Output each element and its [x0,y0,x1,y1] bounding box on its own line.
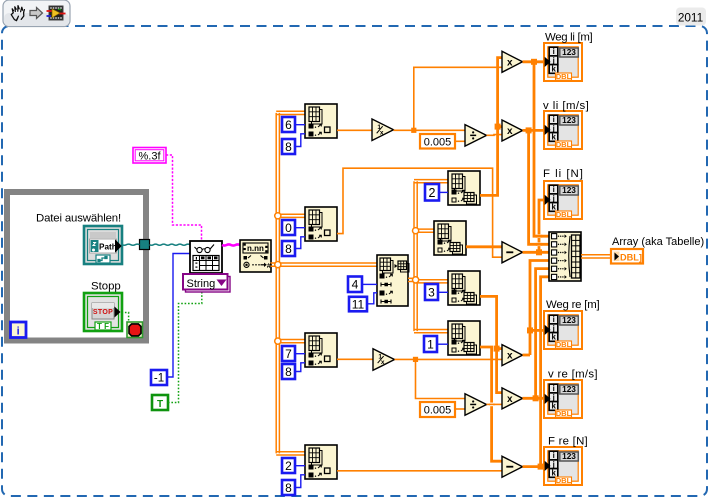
wire v re out [523,397,545,400]
svg-text:11: 11 [352,297,365,311]
wire B4 to subtract F re [480,347,502,461]
wire 0.005 to divide (re) [455,408,465,410]
wire B2 to subtract F li [466,245,502,248]
svg-text:123: 123 [562,47,576,57]
wire v li to build array row2 [529,130,549,244]
svg-text:123: 123 [562,185,576,195]
index array A4 [305,445,337,479]
constant 11 [349,297,367,312]
junction F re out [538,464,544,470]
wire A4 to subtract F re [337,470,502,472]
label Weg re [m] [546,299,600,311]
loop condition terminal [127,322,143,338]
constant 2 (B1) [425,184,439,201]
wire 2D subset vertical [414,181,417,331]
multiply v li [502,120,523,141]
divide (re) [465,394,487,416]
junction 1/x out (li) [411,128,416,133]
subtract F re [502,456,523,477]
svg-text:Array (aka Tabelle): Array (aka Tabelle) [612,236,704,248]
wire v re to build array row5 [536,269,549,399]
numeric constant 0.005 (re) [420,402,455,417]
divide (li) [465,125,487,147]
wire divide to multiply v re [487,403,502,405]
constant 0 (A2) [282,220,295,235]
svg-text:String: String [187,278,216,290]
loop iteration terminal i [11,322,27,338]
svg-text:0.005: 0.005 [424,136,452,148]
svg-text:8: 8 [285,242,292,256]
wire crossing gap (F li riser over row1) [537,234,540,238]
index array B4 [448,321,480,355]
svg-text:i: i [553,115,555,124]
svg-text:8: 8 [285,481,292,495]
svg-text:123: 123 [562,451,576,461]
junction V1 at multiply v li [495,124,501,130]
wire 8 to A4 [295,475,305,488]
index array B3 [448,271,480,305]
wire branch to index array B4 [414,330,448,333]
wire F li out [523,251,550,254]
wire -1 to Read VI [167,254,190,378]
wire branch to index array A4 [276,452,305,455]
wire Weg li to build array row1 [534,62,549,236]
svg-text:j: j [552,124,555,133]
svg-text:i: i [553,185,555,194]
wire Weg re to indicator [530,329,544,332]
Build Array [549,232,581,281]
label v re [m/s] [548,369,598,381]
index array A2 [305,207,337,241]
wire 1/x to multiply Weg re [395,358,503,360]
constant 8 (A2) [282,241,295,256]
svg-text:DBL: DBL [556,72,572,81]
numeric constant -1 [151,370,167,385]
wire 8 to A2 [295,237,305,249]
svg-text:123: 123 [562,115,576,125]
constant 8 (A1) [282,139,295,154]
index array B2 [434,221,466,255]
wire branch to index array A2 [278,214,305,217]
wire F re to build array row6 [541,277,549,467]
svg-text:Path: Path [99,243,117,252]
svg-text:T F: T F [97,322,109,331]
wire 3 to B3 [438,291,448,293]
wire 1/x to divide (li) [394,129,466,131]
path control Datei auswählen [84,226,122,264]
svg-text:x: x [507,57,513,68]
wire tunnel to Read VI [150,244,191,245]
wire B3 to multiply tops (V2) [480,296,502,392]
snippet toolbar [3,0,70,27]
label Datei auswählen! [36,213,121,225]
wire divide to multiply v li [487,134,502,137]
svg-text:j: j [552,56,555,65]
junction on 2D wire (A3) [275,338,281,344]
svg-text:7: 7 [285,347,292,361]
wire 1/x branch to multiply Weg li [414,67,502,130]
svg-text:j: j [552,460,555,469]
svg-text:3: 3 [428,285,435,299]
wire branch to index array B1 [414,180,448,183]
svg-text:x: x [507,394,513,405]
constant 4 [348,277,362,293]
wire 8 to A1 [295,134,305,147]
svg-text:F li [N]: F li [N] [543,168,584,180]
svg-text:8: 8 [285,140,292,154]
wire 4 to Array Subset [362,283,377,285]
wire A1 to 1/x [337,129,372,131]
svg-text:DBL: DBL [556,140,572,149]
svg-text:x: x [507,126,513,137]
index array A1 [305,104,337,138]
svg-text:T: T [157,399,163,410]
subtract F li [502,242,523,263]
wire Weg re to build array row4 [530,261,549,356]
wire n.nn out / branch to Array Subset [271,263,378,266]
toolbar hand tool icon [11,6,24,21]
wire A2 to subtract F li [337,168,502,257]
wire branch to index array B3 [416,280,448,283]
svg-text:0: 0 [285,221,292,235]
svg-text:x: x [380,129,384,136]
wire build array row2 segment [536,243,542,246]
svg-text:i: i [553,315,555,324]
boolean constant T [152,395,168,410]
wire 2D array main vertical [276,113,279,454]
indicator F re [N] [544,447,582,485]
svg-text:DBL]: DBL] [620,252,642,262]
svg-text:j: j [552,194,555,203]
constant 3 (B3) [425,284,438,300]
wire 8 to A3 [295,363,305,372]
constant 8 (A4) [282,480,295,495]
wire 7 to A3 [295,353,305,355]
string constant %.3f [133,148,166,164]
svg-text:%.3f: %.3f [138,151,161,163]
wire crossing gap (F li riser over row2) [537,243,540,247]
wire Weg re out [523,354,531,357]
constant 8 (A3) [282,364,295,379]
toolbar run arrow icon [30,8,43,19]
junction on 2D wire (A2) [275,213,281,219]
numeric constant 0.005 (li) [420,134,455,149]
wire Array Subset output [408,278,416,281]
wire build array to Array indicator [581,255,611,258]
loop tunnel (path) [140,240,150,250]
Array (aka Tabelle) indicator [611,249,643,264]
wire A3 to 1/x (re) [337,358,373,360]
svg-text:Weg re [m]: Weg re [m] [546,299,600,311]
Fract/Exp String To Number [240,240,272,272]
wire 1/x branch to divide (re) [416,359,466,398]
reciprocal 1/x (li) [372,119,394,141]
label F li [N] [543,168,584,180]
index array B1 [448,171,480,205]
constant 7 (A3) [282,346,295,361]
svg-text:n.nn: n.nn [247,244,264,253]
constant 1 (B4) [424,336,437,352]
svg-text:j: j [552,393,555,402]
2011 version text [678,11,703,25]
svg-text:4: 4 [352,278,359,292]
wire Read VI to n.nn (2D string) [222,244,240,245]
wire V2 to multiply Weg re [497,347,502,350]
junction subset wire (B2) [413,228,419,234]
while loop [4,189,149,344]
svg-text:2: 2 [429,186,436,200]
svg-text:1: 1 [427,337,434,351]
wire %.3f to Read VI (format string) [166,155,202,241]
wire branch to index array A3 [278,340,305,343]
label Stopp [91,281,121,293]
svg-text:6: 6 [285,118,292,132]
svg-text:STOP: STOP [93,309,113,316]
String type dropdown [183,274,230,292]
wire V1 to multiply v li [498,125,502,128]
svg-text:v li [m/s]: v li [m/s] [543,100,589,112]
svg-text:x: x [381,359,385,366]
wire F li to indicator [539,200,544,252]
svg-text:DBL: DBL [556,409,572,418]
indicator Weg re [m] [544,311,582,349]
wire v li out [523,129,545,132]
wire 0.005 to divide (li) [455,140,465,142]
wire build array row1 segment [536,235,542,238]
constant 6 [282,117,295,132]
junction v li out [526,127,532,133]
wire path control to tunnel [122,244,140,245]
svg-text:Datei auswählen!: Datei auswählen! [36,213,121,225]
wire Weg li out [523,60,545,63]
wire 2 to B1 [439,191,448,193]
svg-text:i: i [553,384,555,393]
svg-text:DBL: DBL [556,476,572,485]
label Array (aka Tabelle) [612,236,704,248]
index array A3 [305,333,337,367]
junction v re out [533,395,539,401]
Read From Spreadsheet File VI [190,241,222,273]
svg-text:v re [m/s]: v re [m/s] [548,369,598,381]
wire branch to index array B2 [416,229,434,232]
svg-text:x: x [507,351,513,362]
wire crossing gap (B4 riser over divide out) [490,403,493,407]
svg-text:i: i [17,325,20,337]
constant 2 (A4) [282,458,295,473]
stop button Stopp [84,293,122,331]
junction V2 at multiply Weg re [494,346,500,352]
multiply v re [502,388,523,409]
indicator F li [N] [544,181,582,219]
wire B1 to multiply tops (V1) [480,58,502,196]
svg-text:i: i [553,47,555,56]
toolbar VI-snippet icon [47,6,66,20]
svg-text:-1: -1 [154,373,164,385]
indicator v li [m/s] [544,111,582,149]
wire 11 to Array Subset [367,293,377,304]
label Weg li [m] [545,32,593,44]
wire 1 to B4 [437,343,448,345]
svg-text:DBL: DBL [556,210,572,219]
svg-text:DBL: DBL [556,340,572,349]
junction on 2D wire (n.nn) [275,262,281,268]
junction Weg li out [531,59,537,65]
Array Subset [377,255,409,306]
wire stop button to condition terminal [122,313,129,321]
svg-text:F re [N]: F re [N] [548,436,588,448]
junction 1/x out (re) [413,357,418,362]
svg-text:i: i [553,451,555,460]
svg-text:Weg li [m]: Weg li [m] [545,32,593,44]
wire divide out segment (re) [489,403,495,405]
multiply Weg li [502,51,523,72]
multiply Weg re [502,345,523,366]
svg-text:123: 123 [562,384,576,394]
wire 2 to A4 [295,465,305,467]
svg-text:0.005: 0.005 [424,405,452,417]
wire T to Read VI (transpose) [168,292,202,403]
svg-text:Stopp: Stopp [91,281,121,293]
svg-text:123: 123 [562,315,576,325]
label v li [m/s] [543,100,589,112]
indicator v re [m/s] [544,380,582,418]
svg-text:j: j [552,324,555,333]
junction Weg re [527,327,533,333]
wire 0 to A2 [295,227,305,229]
label F re [N] [548,436,588,448]
wire branch to index array A1 [276,111,305,114]
junction subset wire (out) [413,277,419,283]
wire 6 to A1 [295,124,305,126]
2011 version badge [676,8,706,26]
svg-text:8: 8 [285,365,292,379]
svg-text:2011: 2011 [678,11,703,25]
svg-text:2: 2 [285,459,292,473]
reciprocal 1/x (re) [373,349,395,371]
indicator Weg li [m] [544,43,582,81]
junction F li out [536,249,542,255]
wire F re out [523,465,545,468]
